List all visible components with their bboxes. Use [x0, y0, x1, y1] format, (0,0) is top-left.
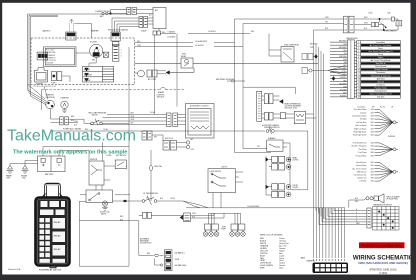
svg-text:FUSE/RELAY LAYOUT: FUSE/RELAY LAYOUT	[39, 268, 62, 271]
svg-text:1 2 3 4 5 6 7 8: 1 2 3 4 5 6 7 8 9 10 11 12 13 14	[33, 86, 56, 88]
svg-text:4WD Sensor: 4WD Sensor	[357, 170, 367, 173]
svg-text:RELAY: RELAY	[54, 248, 61, 251]
svg-text:RELAY: RELAY	[54, 221, 61, 224]
svg-text:BLOWER HI: BLOWER HI	[46, 55, 56, 57]
svg-text:SWITCH: SWITCH	[92, 115, 99, 117]
svg-text:CAB BOX: CAB BOX	[42, 30, 51, 33]
svg-text:OIL PRESSURE SW: OIL PRESSURE SW	[143, 193, 158, 195]
svg-text:LO TEMP: LO TEMP	[84, 80, 91, 82]
svg-text:BATTERY: BATTERY	[45, 173, 54, 176]
svg-text:Ignition Coil: Ignition Coil	[358, 177, 367, 180]
svg-text:Thermister: Thermister	[376, 71, 386, 74]
svg-text:F: F	[356, 223, 357, 225]
svg-text:Fan Hi: Fan Hi	[380, 106, 385, 108]
svg-text:Throttle Control: Throttle Control	[374, 68, 388, 71]
svg-text:Air Cond On / Trip Mode: Air Cond On / Trip Mode	[370, 44, 392, 47]
svg-text:Interlock: Interlock	[377, 96, 385, 99]
svg-text:PINK: PINK	[260, 268, 265, 270]
svg-text:RED/WHT: RED/WHT	[339, 41, 347, 43]
svg-text:Terminal Block: Terminal Block	[356, 154, 367, 157]
svg-text:BLK: BLK	[357, 223, 360, 225]
svg-text:FL 1 2 3 4 5: FL 1 2 3 4 5	[46, 50, 55, 52]
svg-text:YEL: YEL	[325, 22, 328, 24]
svg-text:GRN/WHT: GRN/WHT	[339, 47, 347, 49]
svg-text:5 Vdc: 5 Vdc	[387, 13, 391, 15]
svg-text:Spark Sensor: Spark Sensor	[356, 161, 367, 164]
svg-text:Right Low Beam: Right Low Beam	[354, 127, 367, 130]
svg-text:Rear Base Motor: Rear Base Motor	[354, 108, 367, 111]
svg-text:BLK/WHT: BLK/WHT	[339, 83, 347, 85]
svg-text:ORN/BLK: ORN/BLK	[339, 77, 347, 79]
svg-text:2: 2	[121, 53, 122, 55]
svg-text:E: E	[356, 220, 357, 222]
svg-text:OIL: OIL	[146, 198, 149, 200]
svg-text:1: 1	[121, 50, 122, 52]
svg-text:One Touch / Float Engine Lt: One Touch / Float Engine Lt	[368, 50, 393, 53]
svg-text:Speed Limiter Select Ctrl: Speed Limiter Select Ctrl	[370, 93, 393, 96]
svg-text:BOOM LOCK: BOOM LOCK	[100, 212, 111, 214]
svg-text:LT BLU: LT BLU	[341, 71, 347, 73]
svg-text:RELAY: RELAY	[54, 234, 61, 237]
svg-text:WIRE COLOR LEGEND: WIRE COLOR LEGEND	[260, 235, 283, 237]
svg-text:Thermister & Vent Out: Thermister & Vent Out	[371, 74, 391, 77]
svg-text:Drive Speed: Drive Speed	[375, 66, 386, 68]
svg-text:Lights: Lights	[378, 56, 383, 59]
svg-text:BLU/BLK: BLU/BLK	[340, 95, 348, 97]
svg-text:MED TEMP: MED TEMP	[84, 75, 92, 77]
svg-text:IGNITION: IGNITION	[90, 159, 98, 161]
svg-text:LIGHTS: LIGHTS	[293, 160, 299, 162]
svg-text:Seat Bar In: Seat Bar In	[376, 62, 386, 65]
svg-text:Transmission Sw.: Transmission Sw.	[353, 174, 367, 177]
svg-text:LIGHTS: LIGHTS	[293, 187, 299, 189]
svg-text:SOLENOID: SOLENOID	[46, 97, 56, 99]
svg-text:C: C	[356, 215, 357, 217]
svg-text:HI TEMP: HI TEMP	[84, 70, 90, 72]
svg-text:B: B	[356, 212, 357, 214]
svg-text:CAB MODULE: CAB MODULE	[346, 37, 359, 40]
svg-text:12 Vdc In: 12 Vdc In	[376, 84, 384, 86]
svg-text:Right High Beam: Right High Beam	[354, 131, 367, 134]
svg-text:Fuel Shutoff Timer: Fuel Shutoff Timer	[353, 142, 367, 145]
svg-text:Ground: Ground	[377, 81, 384, 83]
svg-text:Head Light Switch: Head Light Switch	[353, 134, 367, 137]
svg-text:PUMP: PUMP	[221, 229, 226, 231]
svg-text:Parking Brake: Parking Brake	[374, 90, 387, 92]
svg-text:(IF EQUIPPED): (IF EQUIPPED)	[387, 199, 399, 201]
svg-text:Coil-lock: Coil-lock	[360, 112, 367, 114]
svg-text:Factory Tools: Factory Tools	[375, 86, 387, 89]
svg-text:SPEED SENSOR: SPEED SENSOR	[384, 31, 397, 33]
svg-text:RES: RES	[92, 60, 95, 62]
svg-text:Printed in U.S.A.: Printed in U.S.A.	[8, 268, 21, 271]
svg-text:FUEL: FUEL	[182, 54, 186, 56]
svg-text:Run Relay: Run Relay	[359, 149, 367, 151]
svg-text:Acc. Press. Switch: Acc. Press. Switch	[353, 167, 367, 170]
svg-text:The watermark only appears on: The watermark only appears on this sampl…	[13, 150, 127, 156]
svg-text:Start: Start	[279, 267, 283, 270]
svg-text:Tail Light: Tail Light	[360, 118, 367, 121]
svg-text:V-1302: V-1302	[379, 271, 388, 275]
svg-text:LIGHTS: LIGHTS	[221, 167, 227, 169]
svg-text:Air Cond / Temp Mode: Air Cond / Temp Mode	[371, 59, 392, 62]
svg-text:D: D	[356, 218, 357, 220]
svg-text:Fuel Pump: Fuel Pump	[358, 152, 366, 154]
svg-text:3: 3	[121, 56, 122, 58]
svg-text:PUMP: PUMP	[51, 83, 56, 85]
svg-text:HEATER: HEATER	[91, 30, 99, 33]
svg-text:WHT: WHT	[364, 17, 368, 19]
svg-text:RED/WHT: RED/WHT	[310, 44, 317, 46]
svg-text:Drive Brake Switch: Drive Brake Switch	[352, 115, 366, 118]
svg-text:WHT: WHT	[343, 92, 347, 94]
svg-text:WHT/BLK: WHT/BLK	[339, 56, 347, 58]
svg-text:YEL/RED: YEL/RED	[340, 89, 348, 91]
svg-text:SYSTEM PLUG: SYSTEM PLUG	[140, 243, 152, 245]
svg-text:FRONT: FRONT	[293, 185, 299, 187]
svg-text:Lift Valve: Lift Valve	[360, 180, 367, 183]
svg-text:PPL: PPL	[257, 146, 260, 148]
svg-text:BLOWER: BLOWER	[90, 42, 98, 44]
svg-text:Fuse/Batt: Fuse/Batt	[376, 41, 385, 44]
svg-text:HARNESS: HARNESS	[307, 259, 316, 262]
svg-text:ENGINE: ENGINE	[21, 176, 27, 178]
svg-text:MODULE: MODULE	[157, 97, 165, 99]
svg-text:Left Sig. Rear: Left Sig. Rear	[356, 121, 367, 124]
svg-text:STARTER: STARTER	[61, 97, 70, 100]
svg-text:Left Low Beam: Left Low Beam	[355, 124, 367, 127]
svg-text:GROUND: GROUND	[46, 63, 54, 65]
svg-text:PRESSURE SWITCH: PRESSURE SWITCH	[264, 127, 280, 129]
svg-text:TakeManuals.com: TakeManuals.com	[7, 128, 136, 145]
svg-text:A/S Vent: A/S Vent	[377, 77, 385, 80]
svg-text:12 Vdc: 12 Vdc	[368, 13, 373, 15]
svg-text:5200 (S/N AJN511001 AND ABOVE): 5200 (S/N AJN511001 AND ABOVE)	[358, 261, 408, 265]
svg-text:LIGHT SWITCH: LIGHT SWITCH	[210, 171, 222, 173]
svg-text:Printable Version Click Here: Printable Version Click Here	[362, 244, 402, 248]
svg-text:FUEL: FUEL	[222, 227, 226, 229]
svg-text:YEL: YEL	[344, 53, 347, 55]
svg-text:GROUND: GROUND	[388, 136, 396, 138]
svg-text:(S/N 11001 & UP): (S/N 11001 & UP)	[285, 108, 298, 110]
svg-text:Rectifier / Regulator: Rectifier / Regulator	[352, 145, 367, 148]
svg-text:Back: Back	[378, 48, 382, 50]
svg-text:MED SPEED SOLENOID: MED SPEED SOLENOID	[216, 79, 235, 81]
svg-text:Chassis Relay: Chassis Relay	[356, 165, 367, 167]
svg-text:BLOWER LO: BLOWER LO	[46, 57, 56, 59]
